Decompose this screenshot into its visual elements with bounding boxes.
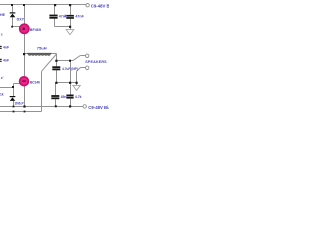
svg-text:4nF: 4nF [3, 59, 9, 63]
svg-text:BC146: BC146 [30, 80, 40, 84]
svg-text:45n: 45n [61, 95, 67, 99]
svg-text:SPEAKERS: SPEAKERS [85, 60, 107, 64]
svg-text:4.7k: 4.7k [75, 95, 82, 99]
svg-text:47nF: 47nF [75, 14, 84, 18]
svg-text:4nF: 4nF [3, 46, 9, 50]
svg-text:BF469: BF469 [30, 28, 41, 32]
svg-text:c′: c′ [1, 76, 4, 80]
svg-text:4: 4 [64, 14, 66, 18]
svg-text:DXY: DXY [17, 17, 25, 21]
svg-text:-HE: -HE [0, 13, 6, 17]
svg-text:75uH: 75uH [37, 46, 47, 51]
svg-text:4.7uF (NP): 4.7uF (NP) [62, 67, 78, 71]
svg-text:c: c [1, 33, 3, 37]
svg-text:C9-48V Bia: C9-48V Bia [91, 4, 109, 9]
svg-text:C9-48V Bia: C9-48V Bia [88, 105, 109, 110]
svg-text:2N6.P: 2N6.P [15, 101, 25, 105]
svg-text:1k: 1k [0, 92, 4, 96]
